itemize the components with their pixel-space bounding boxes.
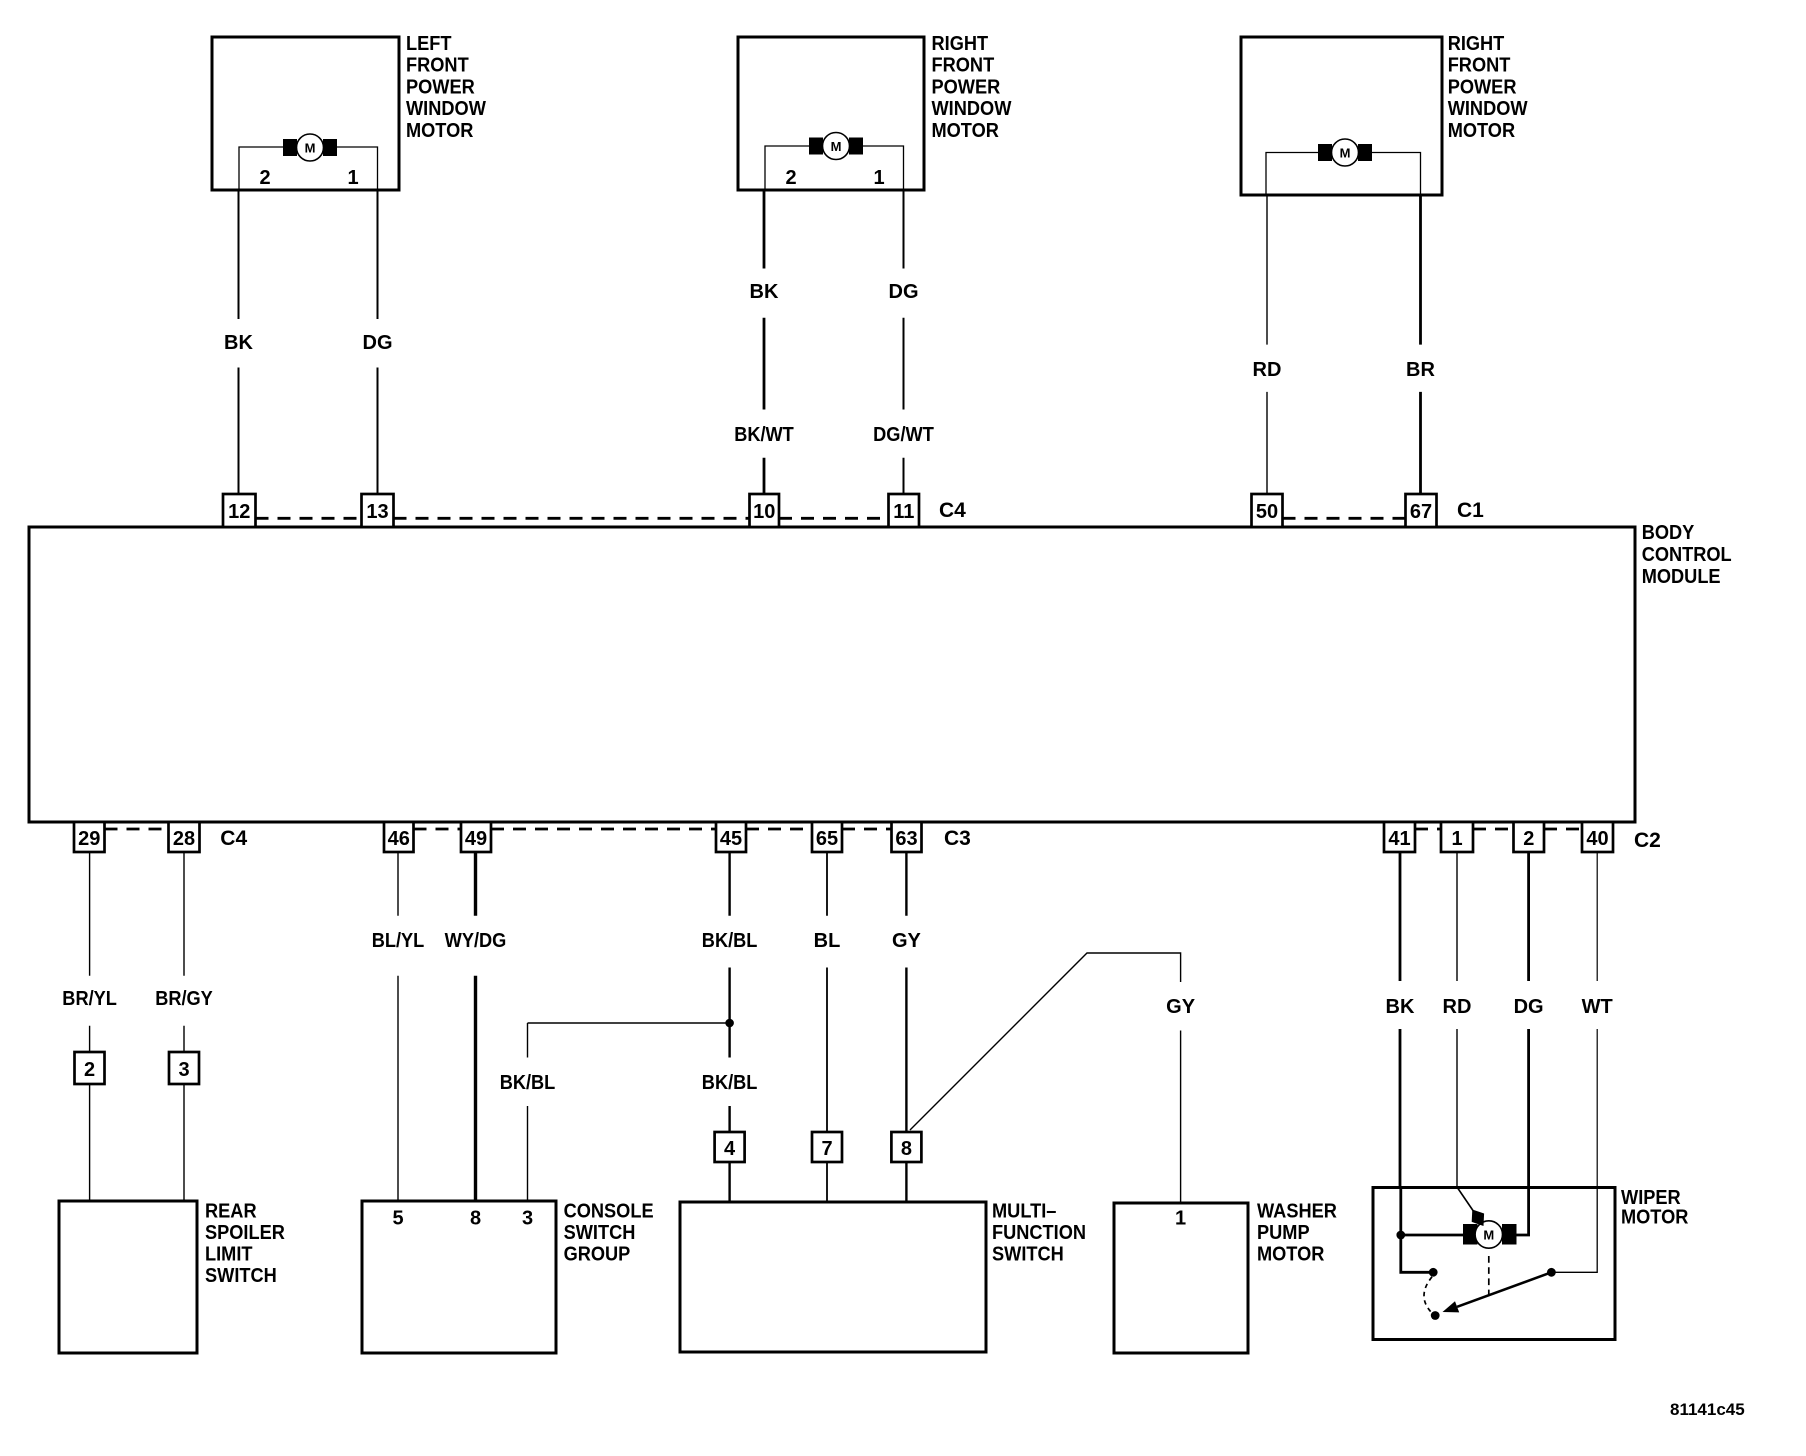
- svg-text:FRONT: FRONT: [1448, 55, 1511, 77]
- svg-text:3: 3: [178, 1059, 189, 1081]
- connector dashes C3 bottom: [414, 828, 892, 831]
- wire BR right motor to BCM pin 67: [1419, 195, 1422, 494]
- connector dashes C4 top: [256, 517, 889, 520]
- svg-text:C3: C3: [944, 827, 971, 850]
- svg-text:MOTOR: MOTOR: [1621, 1207, 1689, 1229]
- wire BK left motor pin2 to BCM pin 12: [238, 190, 240, 494]
- svg-text:WINDOW: WINDOW: [1448, 98, 1528, 120]
- wiper internal wire to motor: [1401, 1234, 1463, 1237]
- svg-text:LIMIT: LIMIT: [205, 1243, 253, 1265]
- motor M3 internal connector U: [1266, 153, 1421, 196]
- wiper dashed motor link: [1488, 1256, 1490, 1295]
- wire DG left motor pin1 to BCM pin 13: [377, 190, 379, 494]
- svg-text:BODY: BODY: [1642, 522, 1695, 544]
- wire pin 7 into switch: [826, 1162, 828, 1202]
- pin 67: [1406, 494, 1437, 527]
- label: LEFT FRONT POWER WINDOW MOTOR: [406, 33, 486, 142]
- wiper internal RD wire with arrow: [1457, 1188, 1484, 1227]
- wiper internal BK wire: [1401, 1188, 1433, 1273]
- pin 63: [892, 822, 922, 852]
- svg-text:DG: DG: [363, 332, 393, 354]
- svg-text:GROUP: GROUP: [564, 1243, 631, 1265]
- svg-text:12: 12: [228, 501, 250, 523]
- motor M1 internal connector U: [239, 147, 378, 190]
- pin 2: [1514, 822, 1545, 852]
- motor M2 symbol: [809, 133, 863, 160]
- svg-text:BK: BK: [750, 281, 779, 303]
- wire BK/BL branch to console pin 3: [528, 1023, 730, 1201]
- pin 10: [750, 494, 780, 527]
- connector dashes C1 top: [1283, 517, 1406, 520]
- svg-text:DG: DG: [889, 281, 919, 303]
- svg-text:SWITCH: SWITCH: [992, 1243, 1064, 1265]
- pin 29: [74, 822, 105, 852]
- svg-text:2: 2: [785, 167, 796, 189]
- svg-text:1: 1: [1451, 828, 1462, 850]
- svg-text:BK/BL: BK/BL: [702, 1072, 758, 1094]
- svg-text:M: M: [1483, 1228, 1494, 1243]
- svg-text:FUNCTION: FUNCTION: [992, 1222, 1086, 1244]
- svg-text:50: 50: [1256, 501, 1278, 523]
- pin 13: [362, 494, 394, 527]
- svg-text:28: 28: [173, 828, 195, 850]
- pin 11: [889, 494, 920, 527]
- pin 50: [1252, 494, 1283, 527]
- motor box: right front power window motor (middle): [738, 37, 924, 190]
- wire pin 4 into switch: [728, 1162, 730, 1202]
- svg-text:2: 2: [259, 167, 270, 189]
- pin 41: [1384, 822, 1415, 852]
- svg-text:CONTROL: CONTROL: [1642, 544, 1732, 566]
- svg-text:WINDOW: WINDOW: [406, 98, 486, 120]
- svg-text:7: 7: [821, 1138, 832, 1160]
- wire DG middle motor to BCM pin 11: [903, 190, 905, 494]
- svg-text:2: 2: [84, 1059, 95, 1081]
- wire BK BCM pin 41 to wiper motor: [1399, 852, 1402, 1188]
- svg-text:DG/WT: DG/WT: [873, 424, 934, 446]
- svg-text:RD: RD: [1253, 359, 1282, 381]
- svg-text:10: 10: [753, 501, 775, 523]
- wire BR/GY BCM pin 28 to spoiler switch pin 3: [183, 852, 185, 1201]
- svg-text:WASHER: WASHER: [1257, 1201, 1337, 1223]
- wiper park position node: [1431, 1311, 1440, 1320]
- junction node on BK/BL wire: [725, 1019, 734, 1028]
- svg-text:POWER: POWER: [406, 76, 475, 98]
- rear spoiler limit switch box: [59, 1201, 197, 1353]
- svg-text:2: 2: [1523, 828, 1534, 850]
- svg-text:BK/WT: BK/WT: [734, 424, 794, 446]
- svg-text:45: 45: [720, 828, 742, 850]
- svg-text:C4: C4: [220, 827, 247, 850]
- svg-text:WT: WT: [1582, 996, 1613, 1018]
- pin 65: [812, 822, 842, 852]
- svg-text:MOTOR: MOTOR: [932, 120, 1000, 142]
- multi-function connector pin 4: [715, 1132, 745, 1162]
- svg-text:BK/BL: BK/BL: [500, 1072, 556, 1094]
- svg-text:REAR: REAR: [205, 1201, 257, 1223]
- wire BR/YL BCM pin 29 to spoiler switch pin 2: [89, 852, 91, 1201]
- svg-text:RIGHT: RIGHT: [1448, 33, 1505, 55]
- svg-text:M: M: [1340, 146, 1351, 161]
- pin 49: [461, 822, 491, 852]
- wire pin 8 into switch: [905, 1162, 907, 1202]
- pin 12: [223, 494, 256, 527]
- multi-function connector pin 8: [891, 1132, 921, 1162]
- svg-text:BL/YL: BL/YL: [372, 930, 425, 952]
- svg-text:M: M: [305, 141, 316, 156]
- svg-text:RIGHT: RIGHT: [932, 33, 989, 55]
- pin 28: [169, 822, 200, 852]
- svg-text:8: 8: [901, 1138, 912, 1160]
- svg-text:BL: BL: [814, 930, 841, 952]
- wire BL/YL BCM pin 46 to console pin 5: [397, 852, 399, 1201]
- connector dashes C4 bottom: [105, 828, 169, 831]
- svg-text:POWER: POWER: [1448, 76, 1517, 98]
- svg-text:DG: DG: [1514, 996, 1544, 1018]
- multi-function switch box: [680, 1202, 986, 1352]
- wiper internal WT wire: [1551, 1188, 1597, 1273]
- svg-text:C2: C2: [1634, 829, 1661, 852]
- label: WIPER MOTOR: [1621, 1187, 1689, 1229]
- pin 40: [1582, 822, 1613, 852]
- motor M1 symbol: [283, 134, 337, 161]
- motor M2 internal connector U: [765, 146, 904, 190]
- svg-text:FRONT: FRONT: [406, 55, 469, 77]
- wire WT BCM pin 40 to wiper motor: [1596, 852, 1598, 1188]
- svg-text:1: 1: [873, 167, 884, 189]
- svg-text:WINDOW: WINDOW: [932, 98, 1012, 120]
- svg-text:40: 40: [1586, 828, 1608, 850]
- wiper park switch node (WT side): [1547, 1268, 1556, 1277]
- wire WY/DG BCM pin 49 to console pin 8: [474, 852, 477, 1201]
- wire BK middle motor to BCM pin 10: [763, 190, 766, 494]
- pin 45: [716, 822, 746, 852]
- svg-text:C4: C4: [939, 499, 966, 522]
- label: CONSOLE SWITCH GROUP: [564, 1201, 654, 1266]
- label: MULTI-FUNCTION SWITCH: [992, 1201, 1086, 1266]
- wiper internal junction node: [1396, 1231, 1405, 1240]
- wire DG BCM pin 2 to wiper motor: [1527, 852, 1530, 1188]
- svg-text:SPOILER: SPOILER: [205, 1222, 285, 1244]
- svg-text:81141c45: 81141c45: [1670, 1400, 1745, 1419]
- wiper switch arm with arrowhead: [1443, 1272, 1552, 1312]
- label: BODY CONTROL MODULE: [1642, 522, 1732, 588]
- connector dashes C2 bottom: [1415, 828, 1582, 831]
- svg-text:C1: C1: [1457, 499, 1484, 522]
- svg-text:67: 67: [1410, 501, 1432, 523]
- svg-text:49: 49: [465, 828, 487, 850]
- svg-text:BR: BR: [1406, 359, 1435, 381]
- wiper motor M symbol: [1463, 1221, 1517, 1248]
- svg-text:BR/YL: BR/YL: [62, 988, 117, 1010]
- spoiler connector pin 3: [169, 1052, 199, 1084]
- svg-text:WY/DG: WY/DG: [445, 930, 507, 952]
- svg-text:MOTOR: MOTOR: [406, 120, 474, 142]
- svg-text:MODULE: MODULE: [1642, 566, 1721, 588]
- pin 46: [384, 822, 414, 852]
- svg-text:11: 11: [893, 501, 914, 523]
- motor box: left front power window motor: [212, 37, 399, 190]
- wire GY BCM pin 63 to multi-function switch pin 8: [905, 852, 907, 1132]
- svg-text:BK/BL: BK/BL: [702, 930, 758, 952]
- pin 1: [1441, 822, 1473, 852]
- svg-text:GY: GY: [1166, 996, 1196, 1018]
- svg-text:MULTI–: MULTI–: [992, 1201, 1056, 1223]
- svg-text:8: 8: [470, 1208, 481, 1230]
- svg-text:BR/GY: BR/GY: [155, 988, 213, 1010]
- svg-text:LEFT: LEFT: [406, 33, 452, 55]
- svg-text:SWITCH: SWITCH: [564, 1222, 636, 1244]
- svg-text:POWER: POWER: [932, 76, 1001, 98]
- svg-text:1: 1: [1175, 1208, 1186, 1230]
- svg-text:63: 63: [895, 828, 917, 850]
- svg-text:4: 4: [724, 1138, 736, 1160]
- svg-text:RD: RD: [1443, 996, 1472, 1018]
- svg-text:MOTOR: MOTOR: [1257, 1243, 1325, 1265]
- svg-text:SWITCH: SWITCH: [205, 1265, 277, 1287]
- console switch group box: [362, 1201, 556, 1353]
- body control module box: [29, 527, 1635, 822]
- multi-function connector pin 7: [812, 1132, 842, 1162]
- svg-text:BK: BK: [1386, 996, 1415, 1018]
- motor box: right front power window motor (right): [1241, 37, 1442, 195]
- svg-text:BK: BK: [224, 332, 253, 354]
- wiper dashed switch travel arc: [1424, 1277, 1432, 1312]
- wire RD BCM pin 1 to wiper motor: [1456, 852, 1458, 1188]
- svg-text:65: 65: [816, 828, 838, 850]
- svg-text:5: 5: [392, 1208, 403, 1230]
- svg-text:CONSOLE: CONSOLE: [564, 1201, 654, 1223]
- wire RD right motor to BCM pin 50: [1266, 195, 1268, 494]
- label: WASHER PUMP MOTOR: [1257, 1201, 1337, 1266]
- washer pump motor box: [1114, 1203, 1248, 1353]
- svg-text:13: 13: [366, 501, 388, 523]
- label: RIGHT FRONT POWER WINDOW MOTOR: [932, 33, 1012, 142]
- wire GY diagonal from pin 8 to washer pump: [910, 953, 1181, 1203]
- svg-text:29: 29: [78, 828, 100, 850]
- wire BL BCM pin 65 to multi-function switch pin 7: [826, 852, 828, 1132]
- wiper motor box: [1373, 1188, 1615, 1340]
- wire BK/BL BCM pin 45 to multi-function switch pin 4: [728, 852, 730, 1132]
- wiper internal DG wire: [1515, 1188, 1529, 1236]
- wiper switch common node: [1429, 1268, 1438, 1277]
- label: RIGHT FRONT POWER WINDOW MOTOR: [1448, 33, 1528, 142]
- label: REAR SPOILER LIMIT SWITCH: [205, 1201, 285, 1287]
- svg-text:GY: GY: [892, 930, 922, 952]
- svg-text:MOTOR: MOTOR: [1448, 120, 1516, 142]
- svg-text:46: 46: [388, 828, 410, 850]
- motor M3 symbol: [1318, 139, 1372, 166]
- svg-text:41: 41: [1388, 828, 1410, 850]
- spoiler connector pin 2: [75, 1052, 105, 1084]
- svg-text:PUMP: PUMP: [1257, 1222, 1310, 1244]
- svg-text:FRONT: FRONT: [932, 55, 995, 77]
- svg-text:1: 1: [347, 167, 358, 189]
- svg-text:3: 3: [522, 1208, 533, 1230]
- svg-text:M: M: [831, 139, 842, 154]
